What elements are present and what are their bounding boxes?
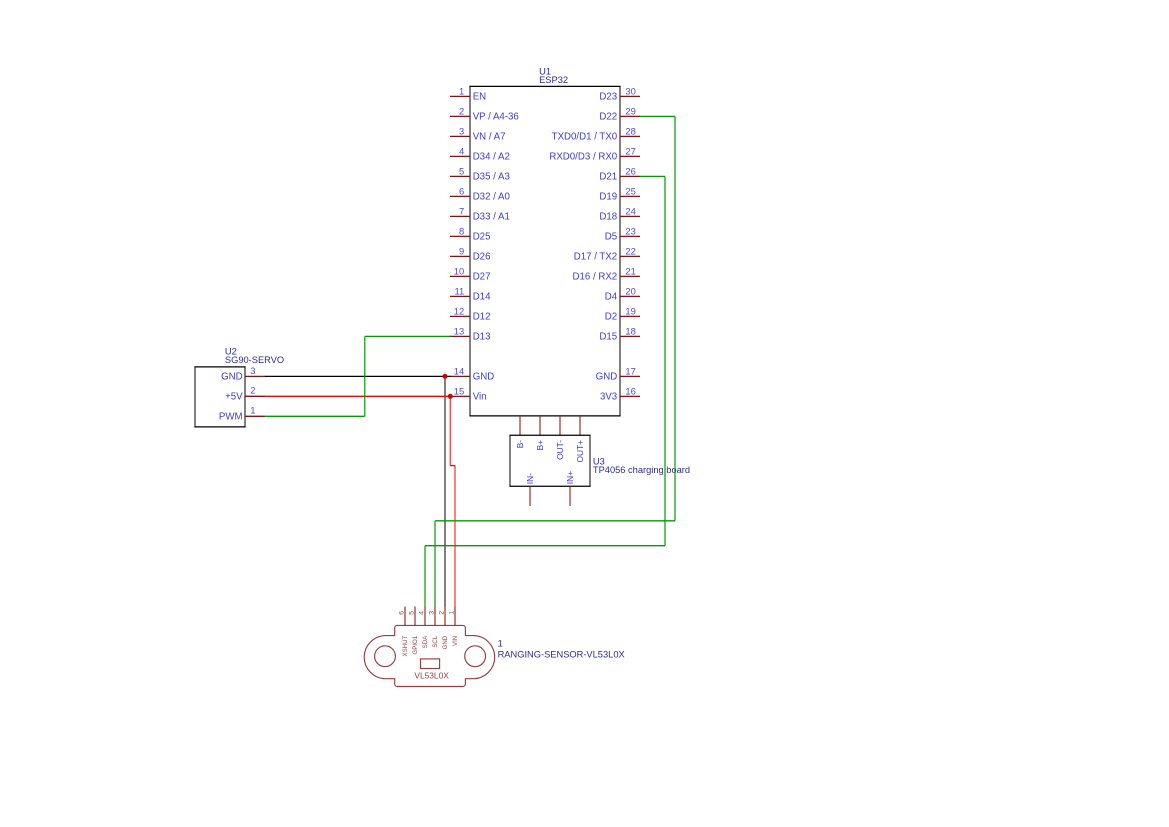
U1 pin 16 (3V3) right side [600,385,640,402]
svg-text:28: 28 [625,125,635,136]
svg-text:D2: D2 [605,312,617,323]
svg-text:2: 2 [438,611,445,615]
svg-text:GND: GND [473,372,495,383]
wire PWM: U2 pin1 to U1 pin13 D13 (green) [265,336,451,416]
svg-text:D23: D23 [599,92,617,103]
sensor pin 6 (XSHUT) [398,607,409,657]
svg-text:D32 / A0: D32 / A0 [473,192,511,203]
U1 pin 12 (D12) left side [450,305,490,322]
svg-text:15: 15 [454,385,464,396]
wire SDA: U1 pin26 D21 to sensor pin4 SDA (green) [425,176,665,606]
svg-text:D34 / A2: D34 / A2 [473,152,510,163]
sensor reference designator 1 [498,639,503,649]
sensor value label RANGING-SENSOR-VL53L0X [498,649,625,659]
svg-text:D35 / A3: D35 / A3 [473,172,510,183]
svg-text:D13: D13 [473,332,491,343]
ranging sensor VL53L0X footprint outline [364,625,495,686]
sensor value label VL53L0X [414,671,449,681]
sensor chip rectangle [421,659,440,669]
sensor pin 2 (GND) [438,607,449,650]
U3 top pin B- [515,440,525,449]
U2 pin 1 (PWM) [219,405,265,423]
svg-text:2: 2 [459,105,464,116]
sensor pin 1 (VIN) [448,607,459,646]
svg-text:D27: D27 [473,272,491,283]
U1 pin 24 (D18) right side [599,205,640,222]
svg-text:SCL: SCL [432,635,439,647]
svg-text:VL53L0X: VL53L0X [414,671,449,681]
svg-text:4: 4 [418,611,425,615]
sensor pin 4 (SDA) [418,607,429,649]
svg-text:1: 1 [498,639,503,649]
svg-text:Vin: Vin [473,392,487,403]
U3 bottom pin IN- [525,473,535,506]
U1 pin 2 (VP / A4-36) left side [450,105,519,122]
U1 bottom pin stub 1 to U3 [519,416,521,435]
svg-text:D21: D21 [599,172,617,183]
U1 reference designator [539,66,551,76]
svg-text:D5: D5 [605,232,617,243]
junction dot +5V node [448,394,453,399]
svg-text:IN+: IN+ [565,471,575,484]
svg-text:D19: D19 [599,192,617,203]
U1 pin 6 (D32 / A0) left side [450,185,510,202]
svg-text:PWM: PWM [219,412,243,423]
svg-text:12: 12 [454,305,464,316]
svg-text:D33 / A1: D33 / A1 [473,212,510,223]
svg-text:26: 26 [625,165,635,176]
svg-text:D25: D25 [473,232,491,243]
U1 pin 10 (D27) left side [450,265,490,282]
U1 pin 7 (D33 / A1) left side [450,205,510,222]
svg-text:D18: D18 [599,212,617,223]
U1 pin 29 (D22) right side [599,105,640,122]
svg-text:5: 5 [408,611,415,615]
svg-text:3: 3 [250,365,255,376]
svg-text:4: 4 [459,145,464,156]
svg-text:5: 5 [459,165,464,176]
svg-text:1: 1 [459,85,464,96]
svg-text:XSHUT: XSHUT [402,636,409,657]
U2 reference designator [225,347,237,357]
svg-text:IN-: IN- [525,473,535,484]
module U2 SG90-SERVO body outline [194,367,245,427]
U1 pin 22 (D17 / TX2) right side [574,245,640,262]
U1 pin 17 (GND) right side [596,365,640,382]
U1 pin 28 (TXD0/D1 / TX0) right side [552,125,640,142]
svg-text:RANGING-SENSOR-VL53L0X: RANGING-SENSOR-VL53L0X [498,649,625,659]
svg-text:19: 19 [625,305,635,316]
svg-text:3: 3 [428,611,435,615]
svg-text:ESP32: ESP32 [539,75,568,85]
U1 pin 15 (Vin) left side [450,385,487,402]
svg-text:16: 16 [625,385,635,396]
U1 pin 8 (D25) left side [450,225,490,242]
svg-text:13: 13 [454,325,464,336]
svg-text:8: 8 [459,225,464,236]
svg-text:D15: D15 [599,332,617,343]
sensor left mounting hole [375,646,396,667]
svg-text:23: 23 [625,225,635,236]
U1 pin 23 (D5) right side [605,225,640,242]
svg-text:21: 21 [625,265,635,276]
U2 pin 3 (GND) [221,365,265,383]
module U3 TP4056 charging board body outline [509,435,590,486]
U1 bottom pin stub 2 to U3 [539,416,541,435]
U1 pin 20 (D4) right side [605,285,640,302]
svg-text:25: 25 [625,185,635,196]
U1 pin 14 (GND) left side [450,365,494,382]
svg-text:27: 27 [625,145,635,156]
U1 pin 25 (D19) right side [599,185,640,202]
U1 pin 3 (VN / A7) left side [450,125,506,142]
svg-text:D26: D26 [473,252,491,263]
svg-text:OUT-: OUT- [555,440,565,460]
svg-text:20: 20 [625,285,635,296]
svg-text:10: 10 [454,265,464,276]
U1 pin 27 (RXD0/D3 / RX0) right side [549,145,640,162]
svg-text:3V3: 3V3 [600,392,617,403]
svg-text:OUT+: OUT+ [575,440,585,463]
svg-text:VIN: VIN [452,636,459,646]
svg-text:+5V: +5V [225,392,243,403]
wire +5V vertical with jog down to sensor pin1 VIN (red) [450,396,455,606]
U3 value label TP4056 charging board [593,465,690,475]
svg-text:18: 18 [625,325,635,336]
svg-text:RXD0/D3 / RX0: RXD0/D3 / RX0 [549,152,617,163]
svg-text:1: 1 [448,611,455,615]
U3 bottom pin IN+ [565,471,575,506]
svg-text:2: 2 [250,385,255,396]
svg-text:24: 24 [625,205,635,216]
svg-text:VP / A4-36: VP / A4-36 [473,112,519,123]
U3 top pin OUT- [555,440,565,460]
svg-text:GND: GND [442,635,449,649]
svg-text:GND: GND [596,372,618,383]
svg-text:GPIO1: GPIO1 [412,635,419,654]
svg-text:EN: EN [473,92,486,103]
svg-text:29: 29 [625,105,635,116]
svg-text:11: 11 [454,285,464,296]
U1 pin 26 (D21) right side [599,165,640,182]
svg-text:D16 / RX2: D16 / RX2 [572,272,617,283]
sensor pin 5 (GPIO1) [408,607,419,655]
svg-text:9: 9 [459,245,464,256]
U1 bottom pin stub 4 to U3 [579,416,581,435]
svg-text:VN / A7: VN / A7 [473,132,506,143]
U1 pin 18 (D15) right side [599,325,640,342]
U1 pin 5 (D35 / A3) left side [450,165,510,182]
svg-text:22: 22 [625,245,635,256]
svg-text:TXD0/D1 / TX0: TXD0/D1 / TX0 [552,132,618,143]
U2 value label SG90-SERVO [225,355,284,365]
svg-text:D22: D22 [599,112,617,123]
wire +5V: U2 pin2 to U1 pin15 (red) [265,395,451,397]
svg-text:30: 30 [625,85,635,96]
U1 pin 19 (D2) right side [605,305,640,322]
svg-text:D4: D4 [605,292,618,303]
U1 pin 9 (D26) left side [450,245,490,262]
svg-text:1: 1 [250,405,255,416]
wire GND vertical: junction down to sensor pin2 (gray) [444,376,446,606]
svg-text:6: 6 [459,185,464,196]
U3 top pin B+ [535,440,545,451]
IC U1 ESP32 module body outline [469,86,620,416]
wire GND: U2 pin3 to U1 pin14 (black) [265,375,451,377]
sensor right mounting hole [465,646,486,667]
svg-text:14: 14 [454,365,464,376]
U1 pin 13 (D13) left side [450,325,490,342]
sensor pin 3 (SCL) [428,607,439,648]
svg-text:7: 7 [459,205,464,216]
wire SCL: U1 pin29 D22 to sensor pin3 SCL (green) [435,116,675,606]
U1 bottom pin stub 3 to U3 [559,416,561,435]
U3 reference designator [593,457,605,467]
svg-text:17: 17 [625,365,635,376]
svg-text:D12: D12 [473,312,491,323]
U3 top pin OUT+ [575,440,585,463]
svg-text:SDA: SDA [422,635,429,648]
svg-text:6: 6 [398,611,405,615]
svg-text:D14: D14 [473,292,491,303]
U1 pin 1 (EN) left side [450,85,486,102]
svg-text:GND: GND [221,372,243,383]
U1 pin 30 (D23) right side [599,85,640,102]
U2 pin 2 (+5V) [225,385,265,403]
svg-text:D17 / TX2: D17 / TX2 [574,252,617,263]
svg-text:3: 3 [459,125,464,136]
svg-text:B+: B+ [535,440,545,451]
U1 pin 21 (D16 / RX2) right side [572,265,640,282]
junction dot GND node [443,374,448,379]
svg-text:B-: B- [515,440,525,449]
U1 pin 4 (D34 / A2) left side [450,145,510,162]
U1 value label ESP32 [539,75,568,85]
U1 pin 11 (D14) left side [450,285,491,302]
svg-text:SG90-SERVO: SG90-SERVO [225,355,284,365]
